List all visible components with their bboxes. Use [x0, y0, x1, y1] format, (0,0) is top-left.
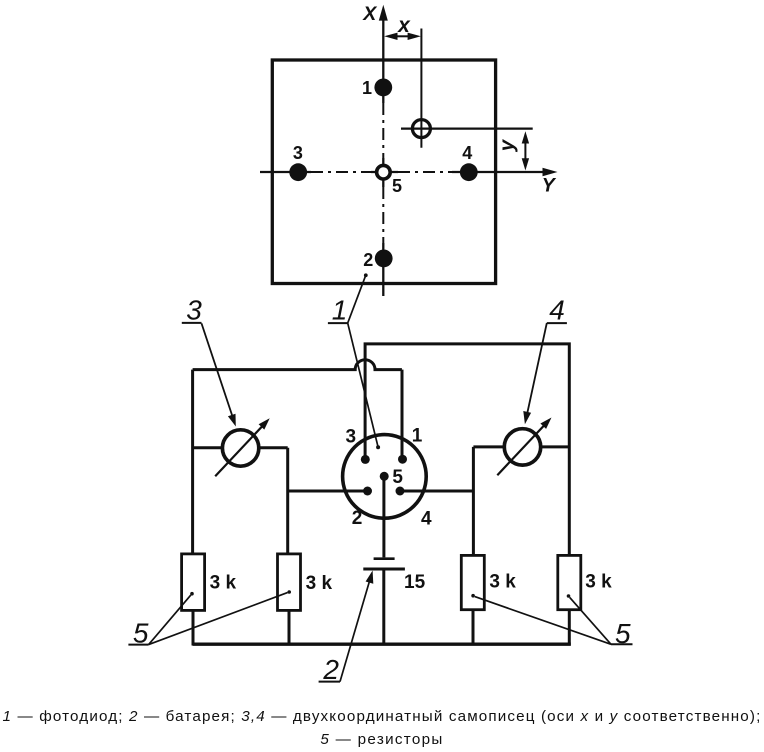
svg-text:4: 4 [549, 294, 565, 325]
svg-text:2: 2 [322, 654, 339, 685]
svg-text:X: X [362, 3, 377, 25]
svg-text:x: x [397, 14, 411, 37]
svg-text:3: 3 [186, 295, 202, 326]
svg-text:15: 15 [404, 572, 426, 593]
svg-text:3 k: 3 k [306, 573, 333, 594]
svg-text:5: 5 [392, 176, 402, 196]
svg-text:3: 3 [293, 143, 303, 163]
svg-text:5 — резисторы: 5 — резисторы [320, 731, 443, 748]
svg-text:3 k: 3 k [585, 572, 612, 593]
svg-text:1 — фотодиод; 2 — батарея; 3,4: 1 — фотодиод; 2 — батарея; 3,4 — двухкоо… [3, 708, 762, 725]
svg-text:4: 4 [421, 509, 432, 530]
svg-text:Y: Y [542, 175, 557, 197]
svg-text:2: 2 [352, 508, 363, 529]
svg-text:y: y [496, 138, 519, 152]
svg-text:5: 5 [133, 618, 149, 649]
svg-text:4: 4 [462, 143, 472, 163]
svg-text:1: 1 [412, 426, 423, 447]
svg-text:2: 2 [363, 250, 373, 270]
svg-text:1: 1 [332, 294, 348, 325]
svg-text:3: 3 [346, 426, 357, 447]
svg-text:3 k: 3 k [210, 573, 237, 594]
svg-text:5: 5 [615, 618, 631, 649]
svg-text:1: 1 [362, 78, 372, 98]
svg-text:5: 5 [392, 467, 403, 488]
svg-text:3 k: 3 k [489, 572, 516, 593]
